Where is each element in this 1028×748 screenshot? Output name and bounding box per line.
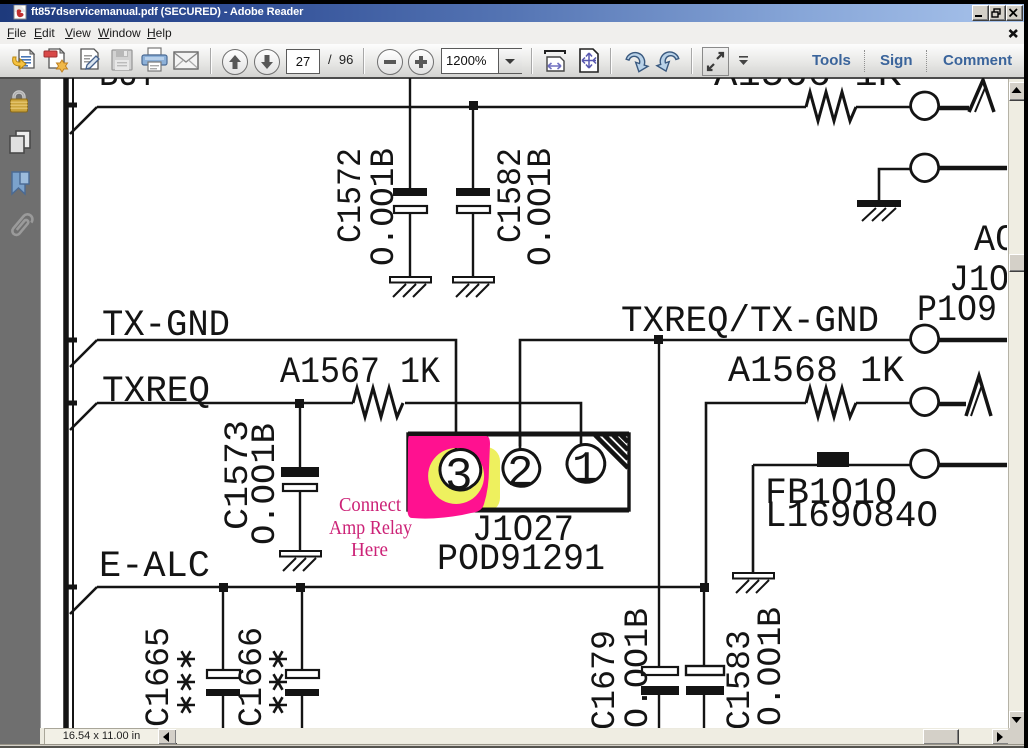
thick stub after P109 pin xyxy=(939,338,1007,343)
capacitor C1573 wire upper xyxy=(299,403,301,468)
wire TXREQ/TX-GND horizontal xyxy=(520,340,911,446)
capacitor C1572 plate top xyxy=(393,188,427,196)
pin 2 circle xyxy=(503,450,540,487)
resistor R1568 xyxy=(806,388,856,417)
connector J1027 highlight yellow xyxy=(428,447,500,512)
wire entry diagonal TXREQ xyxy=(70,403,97,430)
connector J1027 corner hatch xyxy=(595,435,628,468)
pin2 wire stub xyxy=(519,432,522,450)
svg-text:O.OO1B: O.OO1B xyxy=(523,148,561,266)
svg-text:Amp Relay: Amp Relay xyxy=(329,517,412,539)
capacitor C1583 plate bottom xyxy=(686,686,724,695)
vertical scrollbar xyxy=(1008,79,1025,728)
capacitor C1665 wire lower xyxy=(222,696,224,728)
ferrite bead FB1010 xyxy=(817,452,849,467)
junction dot node C1573 xyxy=(295,399,304,408)
off-page arrow inner stroke xyxy=(975,88,985,112)
label C1666 stars xyxy=(269,651,287,713)
ground C1572 xyxy=(390,277,431,297)
svg-text:O.OO1B: O.OO1B xyxy=(620,608,658,728)
svg-text:BUT: BUT xyxy=(99,78,157,97)
sheet border thick line xyxy=(63,78,69,728)
svg-text:POD91291: POD91291 xyxy=(437,539,605,581)
capacitor C1583 wire lower xyxy=(703,695,705,728)
wire TXREQ horizontal to resistor xyxy=(97,402,353,405)
label C1665 stars xyxy=(177,651,195,713)
wire top horizontal xyxy=(97,106,806,109)
toolbar xyxy=(0,44,1028,77)
resistor R1567 xyxy=(353,388,403,417)
annotation text Connect Amp Relay Here xyxy=(329,494,412,561)
off-page arrow inner stroke 2 xyxy=(971,385,982,416)
svg-text:TXREQ: TXREQ xyxy=(102,371,210,413)
svg-text:L169O84O: L169O84O xyxy=(765,496,938,538)
wire vertical to C1679 xyxy=(658,344,660,667)
ground (pin row) xyxy=(858,201,900,221)
sheet border thin line xyxy=(72,78,74,728)
svg-text:2: 2 xyxy=(507,449,533,499)
node tick E-ALC xyxy=(68,585,77,590)
svg-text:O.OO1B: O.OO1B xyxy=(753,607,791,726)
thick stub after pin R1568 xyxy=(939,402,966,407)
node tick TXREQ xyxy=(68,401,77,406)
wire TX-GND horizontal xyxy=(97,340,456,432)
capacitor C1582 plate top xyxy=(456,188,490,196)
svg-text:1: 1 xyxy=(572,445,598,495)
capacitor C1573 plate top xyxy=(281,467,319,477)
svg-text:TXREQ/TX-GND: TXREQ/TX-GND xyxy=(621,301,879,343)
node tick TX-GND xyxy=(68,338,77,343)
capacitor C1582 wire upper xyxy=(472,106,474,189)
window top frame xyxy=(0,0,1028,4)
wire entry diagonal top xyxy=(70,107,97,134)
capacitor C1572 wire upper xyxy=(409,78,411,189)
wire E-ALC horizontal xyxy=(97,586,706,589)
ground C1573 xyxy=(280,551,321,571)
svg-text:3: 3 xyxy=(445,451,473,503)
off-page arrow top xyxy=(969,80,994,112)
junction dot C1666 xyxy=(296,583,305,592)
connector pin circle (R1568 row) xyxy=(911,388,939,416)
svg-text:O.OO1B: O.OO1B xyxy=(247,423,285,545)
connector pin circle (R1566 row) xyxy=(911,92,939,120)
wire FB1010 down to ground xyxy=(752,465,755,573)
ground stub row pin circle xyxy=(911,154,939,182)
svg-text:O.OO1B: O.OO1B xyxy=(366,148,404,266)
junction dot C1665 xyxy=(219,583,228,592)
left sidebar xyxy=(0,79,41,744)
svg-text:A1567 1K: A1567 1K xyxy=(280,352,441,394)
capacitor C1573 plate bottom xyxy=(283,484,317,491)
svg-text:P1O9: P1O9 xyxy=(917,290,997,332)
svg-text:E-ALC: E-ALC xyxy=(99,546,210,588)
capacitor C1665 wire upper xyxy=(222,587,224,671)
capacitor C1582 wire lower xyxy=(472,213,474,277)
junction dot TXREQ/TX-GND xyxy=(654,335,663,344)
capacitor C1666 plate bottom xyxy=(285,689,319,696)
capacitor C1679 plate bottom xyxy=(641,686,679,695)
thick wire after FB1010 pin xyxy=(939,463,1007,468)
bottom bar xyxy=(40,728,1008,744)
pin 1 circle xyxy=(567,445,605,483)
ground C1582 xyxy=(453,277,494,297)
svg-text:Here: Here xyxy=(351,539,388,561)
junction dot node C1582 xyxy=(469,101,478,110)
capacitor C1666 plate top xyxy=(286,670,319,678)
svg-text:A1566 1K: A1566 1K xyxy=(714,78,902,97)
wire entry diagonal E-ALC xyxy=(70,587,97,614)
capacitor C1679 wire lower xyxy=(658,695,660,728)
connector J1027 box xyxy=(408,434,629,510)
wire R1568 to pin xyxy=(856,402,911,405)
capacitor C1582 plate bottom xyxy=(457,206,490,213)
capacitor C1666 wire lower xyxy=(301,696,303,728)
wire pin to ground xyxy=(879,169,910,202)
capacitor C1665 plate bottom xyxy=(206,689,240,696)
ferrite bead FB1010 wire xyxy=(753,464,911,467)
capacitor C1573 wire lower xyxy=(299,491,301,551)
resistor R1566 xyxy=(806,92,856,121)
capacitor C1666 wire upper xyxy=(301,587,303,671)
wire R1566 to pin xyxy=(856,106,911,109)
menu bar xyxy=(0,22,1028,44)
svg-text:C1666: C1666 xyxy=(234,627,272,727)
connector pin circle (FB1010 row) xyxy=(911,450,939,478)
capacitor C1583 wire upper xyxy=(703,591,705,667)
ground FB1010 xyxy=(733,573,774,593)
pin3 wire stub xyxy=(455,432,458,451)
capacitor C1572 plate bottom xyxy=(394,206,427,213)
pin 3 circle xyxy=(440,450,481,490)
thick wire after ground-row pin xyxy=(939,166,1007,171)
svg-text:TX-GND: TX-GND xyxy=(102,305,230,347)
capacitor C1679 plate top xyxy=(642,667,678,675)
thick stub after pin xyxy=(939,106,969,111)
annotation pink marker blob xyxy=(408,436,491,519)
connector pin circle P109 (TXREQ/TX-GND row) xyxy=(911,325,939,353)
svg-text:AC: AC xyxy=(974,220,1007,262)
node tick OUT xyxy=(68,103,77,108)
off-page arrow R1568 xyxy=(966,376,991,416)
wire R1568 horizontal xyxy=(706,403,806,587)
svg-text:C1665: C1665 xyxy=(141,627,179,727)
title bar xyxy=(0,4,1028,22)
svg-text:Connect: Connect xyxy=(339,494,401,516)
wire R1567 to pin1 corner xyxy=(405,403,581,445)
wire entry diagonal TX-GND xyxy=(70,340,97,367)
capacitor C1572 wire lower xyxy=(409,213,411,277)
capacitor C1583 plate top xyxy=(686,666,724,675)
svg-text:A1568 1K: A1568 1K xyxy=(728,351,905,393)
capacitor C1665 plate top xyxy=(207,670,240,678)
junction dot C1583 xyxy=(700,583,709,592)
